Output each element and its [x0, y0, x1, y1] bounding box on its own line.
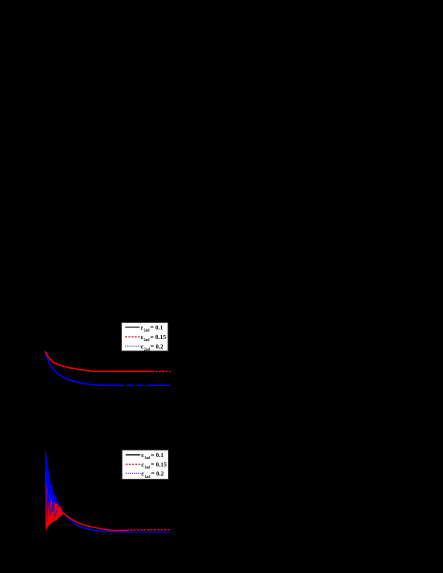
- bottom plot: red oscillation overlay strokes: [46, 485, 62, 518]
- top plot: blue curve eps=0.2 (dotted), decaying to flat asymptote: [45, 351, 170, 385]
- bottom plot: blue oscillation overlay strokes: [46, 458, 56, 521]
- bottom plot: red oscillation blob: [46, 502, 63, 532]
- legend box top plot: [122, 323, 169, 352]
- svg-text:= 0.2: = 0.2: [151, 471, 164, 478]
- svg-text:= 0.1: = 0.1: [151, 452, 164, 459]
- svg-text:= 0.15: = 0.15: [150, 334, 166, 341]
- bottom plot: red oscillation spike base eps=0.15: [45, 472, 61, 528]
- bottom plot: blue speckles inside red blob: [47, 495, 58, 517]
- bottom plot: blue oscillation spike eps=0.2: [46, 450, 61, 528]
- bottom plot: red tail curve: [62, 512, 170, 531]
- bottom plot: blue dotted left edge of spike: [45, 455, 47, 530]
- legend box bottom plot: [122, 450, 168, 479]
- svg-text:= 0.2: = 0.2: [151, 343, 164, 350]
- svg-text:= 0.15: = 0.15: [151, 462, 167, 469]
- top plot: red curve eps=0.15 (dashed), decaying to flat asymptote: [45, 351, 170, 371]
- svg-text:= 0.1: = 0.1: [150, 324, 163, 331]
- bottom plot: blue tail curve: [62, 511, 170, 533]
